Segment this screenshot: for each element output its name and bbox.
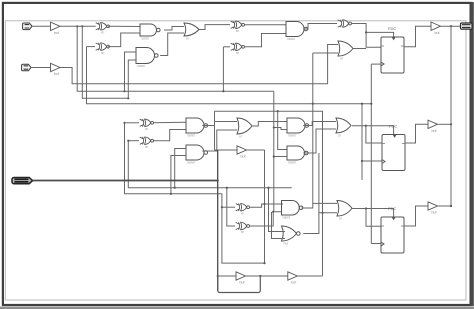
wire pad2-buf2 <box>31 67 51 69</box>
nand gate U17 <box>287 118 309 133</box>
wire nand9-a-drop <box>269 188 286 232</box>
node J5 <box>370 103 372 105</box>
wire clk-riser <box>370 64 372 243</box>
wire xnor8-in <box>222 206 235 208</box>
svg-text:nand: nand <box>187 134 195 138</box>
nand gate U23 <box>282 201 303 216</box>
svg-text:nand: nand <box>141 37 149 41</box>
wire xnor9-nand8b <box>250 212 282 226</box>
input pad I1 <box>23 23 32 30</box>
buffer U_bufA <box>236 272 246 280</box>
node J7 <box>127 140 129 142</box>
wire or1-xnor3 <box>199 25 230 30</box>
wire xnor3-nand3 <box>245 24 286 26</box>
node J3 <box>365 31 367 33</box>
nand gate U14 <box>186 118 208 133</box>
xnor gate U21 <box>236 203 250 211</box>
svg-text:xn: xn <box>145 127 149 131</box>
svg-text:xn: xn <box>236 29 240 33</box>
svg-text:nand: nand <box>288 134 296 138</box>
wire nand6-b-in <box>274 128 287 130</box>
node J6 <box>123 122 125 124</box>
wire bufA-in <box>218 275 236 277</box>
wire clkbuf-in <box>215 149 238 151</box>
svg-text:buf: buf <box>291 281 296 285</box>
wire q2-buf4 <box>405 124 428 143</box>
node JB <box>123 90 125 92</box>
node J14 <box>365 125 367 127</box>
wire v265-down <box>264 150 266 263</box>
output pad O1 <box>461 23 473 29</box>
svg-text:xn: xn <box>241 211 245 215</box>
wire busE-down <box>128 141 291 188</box>
or gate U19 <box>336 118 351 133</box>
wire busF-down <box>125 123 265 263</box>
wire nand9-or5b <box>303 213 337 234</box>
wire xnor6-nand4 <box>154 121 186 124</box>
svg-text:buf: buf <box>435 31 440 35</box>
svg-text:xn: xn <box>145 145 149 149</box>
wire xnor7-in <box>128 140 139 142</box>
node J11 <box>263 262 265 264</box>
wire xnor2-nand1b <box>108 33 140 47</box>
svg-text:buf: buf <box>241 155 246 159</box>
node JD313 <box>312 103 314 105</box>
xnor gate U2 <box>96 43 110 51</box>
node JN6B <box>273 126 275 128</box>
wire busC <box>82 26 128 98</box>
input pad I2 <box>22 64 31 71</box>
xnor gate U22 <box>236 222 250 230</box>
wire pad1-buf1 <box>32 25 51 27</box>
svg-text:nor: nor <box>284 242 290 246</box>
wire busB <box>77 26 274 91</box>
svg-text:buf: buf <box>240 281 245 285</box>
wire nand8-or5 <box>301 203 337 208</box>
buffer U_buf1 <box>51 22 61 30</box>
node J13 <box>273 155 275 157</box>
svg-text:FDC: FDC <box>388 26 396 31</box>
wire buf4-out <box>438 123 452 125</box>
wire ff2-clk-stub <box>362 160 382 162</box>
wire clkbuf-out <box>247 149 265 151</box>
wire nand9-b-drop <box>272 212 286 239</box>
svg-text:nand: nand <box>283 216 291 220</box>
buffer U_buf3 <box>431 22 441 30</box>
node J26 <box>217 275 219 277</box>
nand gate U3 <box>140 24 160 36</box>
or gate U10 <box>338 41 353 56</box>
buffer U_bufB <box>288 272 298 280</box>
wire xnor2-in <box>87 46 96 48</box>
wire nand3-xnor5 <box>303 24 337 30</box>
node JN6 <box>277 110 279 112</box>
svg-text:nand: nand <box>187 161 195 165</box>
svg-text:xn: xn <box>101 31 105 35</box>
wire ff1-clk-stub <box>371 63 381 65</box>
clock input pad I3 <box>12 178 33 184</box>
node JE9 <box>226 187 228 189</box>
wire or5-ff3top <box>352 209 394 218</box>
wire nand2-or1b <box>160 33 184 56</box>
wire xnor9-in <box>227 188 235 226</box>
wire d3-drop <box>366 209 381 227</box>
wire buf3-pad <box>441 25 461 27</box>
buffer U_bufc <box>237 146 247 154</box>
wire q3-buf5 <box>404 206 428 226</box>
flip-flop U26 <box>381 217 404 253</box>
wire nand7-b-in <box>274 156 287 158</box>
wire d1-drop <box>366 32 381 47</box>
wire nand2-b-drop <box>128 60 136 98</box>
wire ff3-clk-stub <box>371 243 381 245</box>
svg-text:xn: xn <box>236 51 240 55</box>
svg-text:nand: nand <box>137 64 145 68</box>
wire xnor7-nand4b <box>154 130 186 141</box>
wire loop below buffer A <box>218 276 261 293</box>
svg-text:buf: buf <box>54 72 59 76</box>
wire n7a-drop <box>278 111 287 149</box>
xnor gate U9 <box>338 20 352 28</box>
nand gate U18 <box>287 146 308 160</box>
buffer U_buf5 <box>428 202 438 210</box>
node J15 <box>361 103 363 105</box>
window bottom shadow strip <box>0 307 474 309</box>
buffer U_buf4 <box>428 120 438 128</box>
wire xnor4-out-up <box>245 34 286 47</box>
or gate U16 <box>237 118 252 134</box>
wire xnor5-fftop <box>352 24 394 38</box>
svg-text:nand: nand <box>287 37 295 41</box>
wire xnor6-in <box>125 122 140 124</box>
node J21 <box>365 207 367 209</box>
wire or4-ff2top <box>352 126 394 135</box>
xnor gate U6 <box>231 21 245 29</box>
wire nand7-or4b <box>303 129 336 153</box>
wire v313 <box>312 53 314 203</box>
svg-text:xn: xn <box>101 51 105 55</box>
node J23 <box>267 187 269 189</box>
wire or2-b-in <box>313 52 338 54</box>
node J17 <box>450 123 452 125</box>
wire q1-buf3 <box>404 26 431 47</box>
wire xnor4-in <box>223 46 230 48</box>
wire nand1-or1 <box>164 27 184 31</box>
wire v217 <box>217 150 219 291</box>
wire out-bus-vert <box>450 26 452 206</box>
window frame right edge thick part <box>470 2 473 306</box>
node J16 <box>361 160 363 162</box>
svg-text:FDC: FDC <box>389 124 397 129</box>
node JC <box>127 97 129 99</box>
xnor gate U13 <box>140 137 154 145</box>
node J9 <box>170 193 172 195</box>
nand gate U8 <box>286 22 308 37</box>
wire nand4-or3 <box>202 122 237 126</box>
wire v362 <box>361 104 363 180</box>
node J8 <box>174 187 176 189</box>
wire busA <box>60 45 338 84</box>
wire buf5-out <box>438 205 452 207</box>
nand gate U15 <box>186 145 208 160</box>
wire nand2-a-drop <box>125 52 137 91</box>
wire xnor4-feed-drop <box>222 47 224 92</box>
node JN8B <box>272 211 274 213</box>
xnor gate U7 <box>231 43 245 51</box>
node J25 <box>217 179 219 181</box>
wire d2-drop <box>366 126 382 143</box>
wire bufB-out <box>297 275 322 277</box>
wire nand5-or3b <box>202 130 237 151</box>
or gate U24 <box>282 226 301 241</box>
svg-text:buf: buf <box>432 129 437 133</box>
xnor gate U12 <box>140 119 154 127</box>
node J18 <box>221 206 223 208</box>
svg-text:buf: buf <box>432 211 437 215</box>
buffer U_buf2 <box>51 63 61 71</box>
wire v319 <box>318 153 320 213</box>
svg-text:xn: xn <box>241 230 245 234</box>
wire nand5-b-drop <box>171 156 186 194</box>
svg-text:nand: nand <box>288 161 296 165</box>
nand gate U4 <box>136 48 158 64</box>
wire xnor8-nand8 <box>250 204 283 207</box>
wire or3-nand6 <box>252 122 287 127</box>
wire nand6-or4 <box>303 122 336 126</box>
node J1 <box>76 25 78 27</box>
wire clkbufin-drop <box>214 111 216 150</box>
or gate U25 <box>337 201 352 217</box>
node J12 <box>263 203 265 205</box>
or gate U5 <box>184 23 199 36</box>
wire or2-d1 <box>353 48 366 50</box>
svg-text:buf: buf <box>54 31 59 35</box>
wire clock-line <box>33 180 218 182</box>
wire xnor1-nand1 <box>108 25 140 27</box>
node J27 <box>259 275 261 277</box>
svg-text:FDC: FDC <box>388 206 396 211</box>
wire busD <box>87 47 371 104</box>
node J2 <box>81 25 83 27</box>
wire n7a-top <box>215 111 323 276</box>
wire nand5-a-drop <box>175 149 186 188</box>
node J22 <box>450 205 452 207</box>
node J4 <box>450 25 452 27</box>
wire buf1-xnor1 <box>60 25 96 27</box>
flip-flop U20 <box>382 135 405 171</box>
xnor gate U1 <box>96 23 110 31</box>
node JX4 <box>222 90 224 92</box>
wire v274 <box>273 91 275 212</box>
wire bufA-out <box>246 275 288 277</box>
flip-flop U11 <box>381 37 404 73</box>
node J20 <box>321 212 323 214</box>
